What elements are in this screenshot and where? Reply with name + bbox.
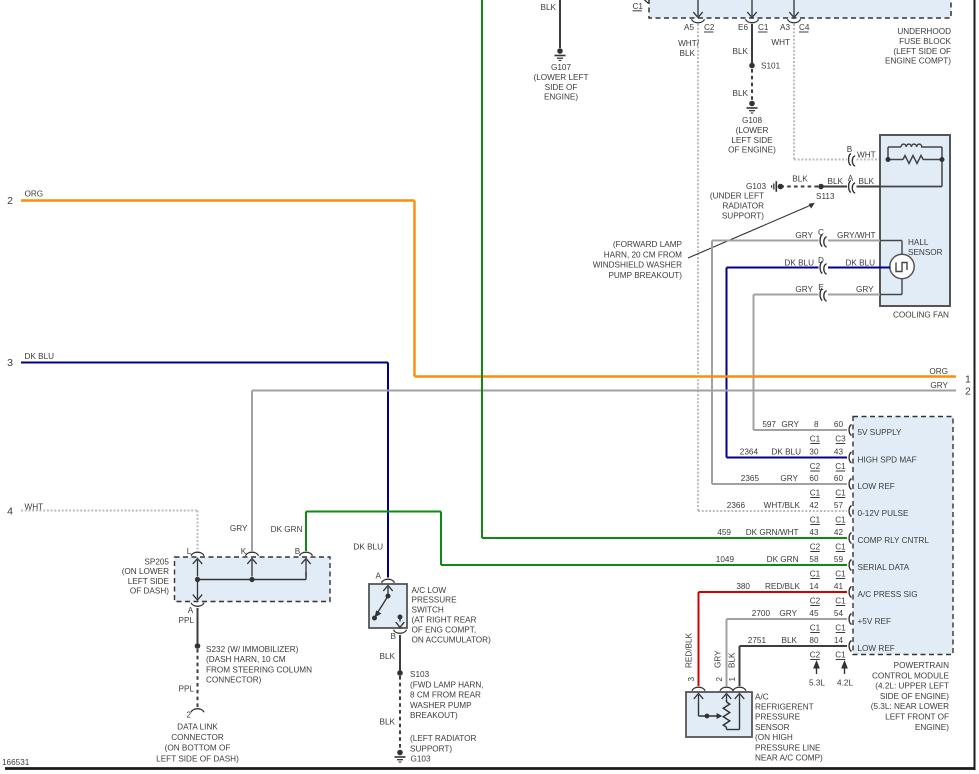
- svg-text:ENGINE): ENGINE): [544, 93, 578, 102]
- svg-text:DK GRN: DK GRN: [271, 525, 303, 534]
- svg-text:PPL: PPL: [179, 616, 195, 625]
- wire PPL from SP205 A to splice S232: [197, 608, 199, 644]
- svg-text:A5: A5: [684, 23, 694, 32]
- svg-text:C2: C2: [810, 543, 821, 552]
- fan motor resistor: [888, 159, 903, 161]
- A/C low pressure switch box: [369, 584, 407, 628]
- svg-text:GRY: GRY: [230, 524, 248, 533]
- wire BLK from connector A to splice S113: [821, 186, 847, 188]
- switch left contact dot: [372, 616, 377, 621]
- svg-text:2365: 2365: [741, 474, 760, 483]
- svg-text:PRESSURE LINE: PRESSURE LINE: [755, 743, 821, 752]
- svg-text:HALL: HALL: [908, 238, 929, 247]
- hall sensor circle: [890, 254, 914, 278]
- wire WHT from connector B into fan: [857, 159, 889, 161]
- svg-text:C2: C2: [810, 597, 821, 606]
- svg-text:A/C LOW: A/C LOW: [412, 586, 447, 595]
- svg-text:14: 14: [809, 582, 819, 591]
- svg-text:CONNECTOR): CONNECTOR): [206, 676, 262, 685]
- svg-text:G107: G107: [551, 63, 571, 72]
- wire BLK from PCM LOW REF to sensor pin 1: [740, 645, 848, 647]
- wire PPL dashed from S232 to data link connector: [197, 649, 199, 708]
- wire GRY from connector E to fan: [828, 294, 880, 296]
- switch internal arrow to B: [399, 617, 401, 622]
- PCM pin row HIGH SPD MAF: circuit 2364 DK BLU: [849, 452, 851, 463]
- svg-text:DK BLU: DK BLU: [784, 259, 814, 268]
- svg-text:LEFT SIDE: LEFT SIDE: [731, 136, 773, 145]
- svg-text:C1: C1: [835, 624, 846, 633]
- PCM pin row COMP RLY CNTRL: circuit 459 DK GRN/WHT: [849, 533, 851, 544]
- svg-text:(ON HIGH: (ON HIGH: [755, 733, 793, 742]
- svg-text:GRY: GRY: [930, 381, 948, 390]
- svg-text:DK BLU: DK BLU: [771, 448, 801, 457]
- page frame right border: [974, 0, 976, 770]
- svg-text:DK GRN: DK GRN: [767, 555, 799, 564]
- svg-text:ENGINE COMPT): ENGINE COMPT): [885, 57, 951, 66]
- svg-text:59: 59: [834, 555, 844, 564]
- svg-text:1: 1: [965, 374, 971, 386]
- svg-text:SENSOR: SENSOR: [755, 723, 790, 732]
- svg-text:L: L: [187, 547, 192, 556]
- svg-text:(LOWER: (LOWER: [736, 126, 769, 135]
- svg-text:LEFT FRONT OF: LEFT FRONT OF: [885, 713, 949, 722]
- PCM pin row A/C PRESS SIG: circuit 380 RED/BLK: [849, 587, 851, 598]
- SP205 connector L: [191, 552, 204, 556]
- svg-text:2: 2: [715, 677, 724, 682]
- svg-text:G103: G103: [746, 182, 766, 191]
- ground G107: [557, 48, 563, 54]
- A/C refrigerant pressure sensor box: [686, 692, 752, 737]
- svg-text:3: 3: [687, 677, 696, 682]
- svg-text:UNDERHOOD: UNDERHOOD: [897, 27, 951, 36]
- svg-text:C1: C1: [810, 570, 821, 579]
- PCM pin row LOW REF: circuit 2365 GRY: [849, 479, 851, 490]
- switch common contact dot: [386, 594, 391, 599]
- svg-text:60: 60: [834, 474, 844, 483]
- svg-text:+5V REF: +5V REF: [858, 617, 891, 626]
- wire RED/BLK from PCM A/C PRESS SIG to sensor pin 3: [699, 591, 848, 593]
- svg-text:DK GRN/WHT: DK GRN/WHT: [746, 528, 799, 537]
- hall sensor wire to pin D: [880, 267, 891, 269]
- svg-text:80: 80: [809, 636, 819, 645]
- svg-text:WHT: WHT: [857, 151, 876, 160]
- svg-text:BLK: BLK: [380, 718, 396, 727]
- svg-text:BLK: BLK: [782, 636, 798, 645]
- svg-text:ORG: ORG: [25, 190, 44, 199]
- svg-text:GRY: GRY: [781, 420, 799, 429]
- svg-text:2751: 2751: [748, 636, 767, 645]
- svg-text:S103: S103: [410, 670, 430, 679]
- hall sensor wire to pin C: [880, 240, 902, 242]
- wire DK BLU down to A/C low pressure switch: [387, 363, 389, 578]
- svg-text:OF DASH): OF DASH): [130, 587, 169, 596]
- svg-text:ORG: ORG: [929, 367, 948, 376]
- svg-text:(AT RIGHT REAR: (AT RIGHT REAR: [412, 616, 477, 625]
- svg-text:459: 459: [717, 528, 731, 537]
- svg-text:PRESSURE: PRESSURE: [412, 596, 458, 605]
- svg-text:C1: C1: [835, 462, 846, 471]
- fuse block pin A5/C2 connector: [692, 19, 705, 23]
- svg-text:A/C: A/C: [755, 692, 769, 701]
- svg-text:GRY: GRY: [795, 285, 813, 294]
- svg-text:30: 30: [809, 448, 819, 457]
- fan motor inductor: [901, 144, 922, 147]
- svg-text:BLK: BLK: [541, 3, 557, 12]
- svg-text:DK BLU: DK BLU: [353, 543, 383, 552]
- svg-text:5V SUPPLY: 5V SUPPLY: [858, 428, 903, 437]
- svg-text:C1: C1: [633, 2, 644, 11]
- svg-text:C1: C1: [758, 23, 769, 32]
- svg-text:C1: C1: [835, 651, 846, 660]
- splice S101: [749, 63, 755, 69]
- junction dot left of motor: [886, 157, 891, 162]
- ground G103 at left radiator support: [397, 750, 403, 756]
- svg-text:WINDSHIELD WASHER: WINDSHIELD WASHER: [593, 261, 682, 270]
- wire WHT to fan connector B: [794, 159, 847, 161]
- svg-text:2: 2: [186, 711, 191, 720]
- svg-text:(DASH HARN, 10 CM: (DASH HARN, 10 CM: [206, 655, 286, 664]
- svg-text:G103: G103: [411, 755, 431, 764]
- switch arm: [377, 596, 388, 614]
- svg-text:0-12V PULSE: 0-12V PULSE: [858, 509, 910, 518]
- svg-text:SIDE OF ENGINE): SIDE OF ENGINE): [880, 692, 949, 701]
- svg-text:HIGH SPD MAF: HIGH SPD MAF: [858, 455, 917, 464]
- svg-text:A3: A3: [780, 23, 790, 32]
- wire DK BLU from fan D down to PCM HIGH SPD MAF: [727, 267, 819, 269]
- svg-text:SUPPORT): SUPPORT): [722, 212, 764, 221]
- svg-text:45: 45: [809, 609, 819, 618]
- splice pack SP205 box: [175, 557, 331, 602]
- svg-text:LEFT SIDE: LEFT SIDE: [128, 577, 170, 586]
- svg-text:A/C PRESS SIG: A/C PRESS SIG: [858, 590, 918, 599]
- svg-text:OF ENG COMPT,: OF ENG COMPT,: [412, 625, 477, 634]
- svg-text:(5.3L: NEAR LOWER: (5.3L: NEAR LOWER: [871, 702, 949, 711]
- splice S232: [195, 643, 201, 649]
- hall sensor pulse glyph: [896, 263, 907, 272]
- svg-text:8 CM FROM REAR: 8 CM FROM REAR: [410, 691, 481, 700]
- fuse block pin E6/C1 connector: [746, 19, 759, 23]
- wire GRY from PCM +5V REF to sensor pin 2: [727, 618, 848, 620]
- wire GRY/WHT from connector C to fan: [828, 240, 880, 242]
- wire WHT from fuse block C4 down: [793, 24, 795, 160]
- fuse block internal wire arrow into pin E6: [751, 0, 753, 16]
- svg-text:2700: 2700: [752, 609, 771, 618]
- svg-text:2364: 2364: [740, 448, 759, 457]
- SP205 connector A: [191, 603, 204, 607]
- svg-text:(UNDER LEFT: (UNDER LEFT: [710, 192, 764, 201]
- fuse block C1 pointer tick: [644, 0, 649, 3]
- wire BLK dashed from S103 to G103: [399, 676, 401, 749]
- wire WHT/BLK from fuse block A5 down: [697, 24, 699, 511]
- svg-text:REFRIGERENT: REFRIGERENT: [755, 703, 814, 712]
- svg-text:GRY/WHT: GRY/WHT: [837, 231, 876, 240]
- PCM pin row SERIAL DATA: circuit 1049 DK GRN: [849, 560, 851, 571]
- svg-text:CONNECTOR: CONNECTOR: [171, 733, 224, 742]
- svg-text:2366: 2366: [727, 501, 746, 510]
- svg-text:COOLING FAN: COOLING FAN: [893, 311, 949, 320]
- svg-text:CONTROL MODULE: CONTROL MODULE: [872, 671, 950, 680]
- svg-text:GRY: GRY: [714, 650, 723, 668]
- svg-text:C1: C1: [835, 597, 846, 606]
- wire GRY from fan C down to PCM LOW REF: [712, 240, 819, 242]
- wire GRY from splice pack K to right edge 2: [252, 390, 956, 392]
- svg-text:(ON BOTTOM OF: (ON BOTTOM OF: [165, 744, 231, 753]
- svg-text:(LOWER LEFT: (LOWER LEFT: [533, 73, 588, 82]
- svg-text:(ON LOWER: (ON LOWER: [122, 567, 169, 576]
- svg-text:GRY: GRY: [795, 231, 813, 240]
- svg-text:DK BLU: DK BLU: [25, 352, 55, 361]
- svg-text:1049: 1049: [716, 555, 735, 564]
- svg-text:BLK: BLK: [728, 652, 737, 668]
- svg-text:SP205: SP205: [144, 558, 169, 567]
- svg-text:POWERTRAIN: POWERTRAIN: [894, 661, 949, 670]
- svg-text:14: 14: [834, 636, 844, 645]
- svg-text:43: 43: [809, 528, 819, 537]
- svg-text:54: 54: [834, 609, 844, 618]
- svg-text:4: 4: [7, 506, 13, 518]
- svg-text:FROM STEERING COLUMN: FROM STEERING COLUMN: [206, 665, 312, 674]
- junction dot right of motor: [940, 157, 945, 162]
- svg-text:B: B: [295, 547, 301, 556]
- powertrain control module box: [853, 417, 953, 655]
- splice S113: [818, 184, 824, 190]
- switch internal arrow from A: [387, 587, 389, 598]
- wire WHT/BLK horizontal to PCM pin 42: [698, 510, 847, 512]
- svg-text:HARN, 20 CM FROM: HARN, 20 CM FROM: [604, 250, 682, 259]
- SP205 internal bus: [198, 579, 307, 581]
- PCM pin row 0-12V PULSE: circuit 2366 WHT/BLK: [849, 506, 851, 517]
- svg-text:C1: C1: [835, 543, 846, 552]
- wire BLK dashed from S113 to G103: [783, 186, 818, 188]
- PCM connector C2 arrow (5.3L): [816, 666, 818, 674]
- svg-text:PRESSURE: PRESSURE: [755, 713, 801, 722]
- wire BLK from switch B to splice S103: [399, 635, 401, 671]
- sensor bottom link: [727, 729, 740, 731]
- fuse block internal wire arrow into pin A3: [793, 0, 795, 16]
- svg-text:A: A: [376, 572, 382, 581]
- wire BLK from fuse block E6 to splice S101: [751, 24, 753, 63]
- ground G103 at radiator support (sideways): [778, 184, 784, 190]
- svg-text:S232 (W/ IMMOBILIZER): S232 (W/ IMMOBILIZER): [206, 645, 299, 654]
- svg-text:GRY: GRY: [779, 609, 797, 618]
- svg-text:42: 42: [834, 528, 844, 537]
- svg-text:43: 43: [834, 448, 844, 457]
- sensor pin 3 connector: [692, 687, 705, 691]
- svg-text:BLK: BLK: [828, 177, 844, 186]
- svg-text:C3: C3: [835, 435, 846, 444]
- svg-text:41: 41: [834, 582, 844, 591]
- sensor internal arrow pin 3: [698, 695, 700, 704]
- data link connector pin 2: [191, 709, 204, 713]
- cooling fan box: [880, 135, 950, 306]
- SP205 connector K: [246, 552, 259, 556]
- svg-text:C2: C2: [704, 23, 715, 32]
- svg-text:BLK: BLK: [733, 89, 749, 98]
- svg-text:58: 58: [809, 555, 819, 564]
- PCM connector C1 arrow (4.2L): [844, 666, 846, 674]
- hall sensor wire to pin E: [880, 294, 902, 296]
- splice S103: [397, 670, 403, 676]
- wire BLK from fan pin A to inline connector A: [857, 186, 881, 188]
- svg-text:PUMP BREAKOUT): PUMP BREAKOUT): [608, 271, 682, 280]
- svg-text:C1: C1: [835, 489, 846, 498]
- wire WHT down to splice pack L: [197, 511, 199, 552]
- svg-text:SENSOR: SENSOR: [908, 248, 943, 257]
- svg-text:57: 57: [834, 501, 844, 510]
- PCM pin row 5V SUPPLY: circuit 597 GRY: [849, 425, 851, 436]
- svg-text:C1: C1: [810, 624, 821, 633]
- svg-text:BLK: BLK: [859, 177, 875, 186]
- page frame bottom border: [5, 767, 976, 770]
- svg-text:A: A: [848, 174, 854, 183]
- sensor resistor element: [723, 702, 729, 727]
- svg-text:B: B: [847, 145, 853, 154]
- svg-text:597: 597: [762, 420, 776, 429]
- A/C low pressure switch connector A: [382, 579, 395, 583]
- A/C low pressure switch connector B: [394, 630, 407, 634]
- fan motor winding loop: [887, 147, 889, 160]
- svg-text:LOW REF: LOW REF: [858, 482, 895, 491]
- wire BLK to G107: [559, 0, 561, 48]
- svg-text:(LEFT SIDE OF: (LEFT SIDE OF: [893, 47, 951, 56]
- svg-text:FUSE BLOCK: FUSE BLOCK: [899, 37, 951, 46]
- svg-text:A: A: [188, 606, 194, 615]
- svg-text:SWITCH: SWITCH: [412, 606, 444, 615]
- svg-text:1: 1: [728, 677, 737, 682]
- svg-text:C1: C1: [835, 570, 846, 579]
- svg-text:166531: 166531: [2, 758, 30, 767]
- svg-text:C1: C1: [810, 489, 821, 498]
- svg-text:2: 2: [7, 195, 13, 207]
- wire BLK dashed from S101 to G108: [751, 69, 753, 100]
- switch right contact dot: [398, 615, 403, 620]
- sensor wiper arm: [699, 715, 718, 717]
- pointer arrow from note to S113: [688, 205, 811, 258]
- svg-text:SERIAL DATA: SERIAL DATA: [858, 563, 910, 572]
- wire DK GRN from splice pack B to PCM SERIAL DATA: [305, 512, 307, 552]
- SP205 internal arrow from L: [197, 560, 199, 577]
- ground G108: [749, 101, 755, 107]
- SP205 junction dot L: [195, 577, 200, 582]
- svg-text:WASHER PUMP: WASHER PUMP: [410, 701, 472, 710]
- svg-text:E6: E6: [738, 23, 748, 32]
- svg-text:COMP RLY CNTRL: COMP RLY CNTRL: [858, 536, 930, 545]
- SP205 internal arrow from B: [305, 560, 307, 577]
- svg-text:C2: C2: [810, 462, 821, 471]
- svg-text:LOW REF: LOW REF: [858, 644, 895, 653]
- svg-text:PPL: PPL: [179, 685, 195, 694]
- svg-text:4.2L: 4.2L: [837, 679, 853, 688]
- wire ORG to right edge 1: [415, 375, 957, 377]
- svg-text:WHT/: WHT/: [678, 39, 700, 48]
- svg-text:WHT: WHT: [771, 38, 790, 47]
- svg-text:ENGINE): ENGINE): [915, 723, 949, 732]
- svg-text:BLK: BLK: [792, 175, 808, 184]
- PCM pin row LOW REF: circuit 2751 BLK: [849, 641, 851, 652]
- svg-text:(LEFT RADIATOR: (LEFT RADIATOR: [410, 734, 477, 743]
- svg-text:60: 60: [834, 420, 844, 429]
- svg-text:WHT/BLK: WHT/BLK: [764, 501, 801, 510]
- svg-text:3: 3: [7, 357, 13, 369]
- wire DK GRN/WHT from top to PCM COMP RLY CNTRL: [481, 0, 483, 538]
- svg-text:8: 8: [814, 420, 819, 429]
- svg-text:BLK: BLK: [680, 49, 696, 58]
- svg-text:C4: C4: [799, 23, 810, 32]
- svg-text:2: 2: [965, 386, 971, 398]
- wire DK BLU from connector D to fan: [828, 267, 880, 269]
- fuse block internal wire arrow into pin A5: [697, 0, 699, 16]
- svg-text:C1: C1: [810, 516, 821, 525]
- svg-text:DK BLU: DK BLU: [846, 259, 876, 268]
- svg-text:C2: C2: [810, 651, 821, 660]
- svg-text:60: 60: [809, 474, 819, 483]
- svg-text:5.3L: 5.3L: [809, 679, 825, 688]
- svg-text:BLK: BLK: [733, 47, 749, 56]
- svg-text:GRY: GRY: [780, 474, 798, 483]
- svg-text:42: 42: [809, 501, 819, 510]
- PCM pin row +5V REF: circuit 2700 GRY: [849, 614, 851, 625]
- svg-text:RADIATOR: RADIATOR: [722, 202, 764, 211]
- fuse block pin A3/C4 connector: [788, 19, 801, 23]
- SP205 junction dot K: [249, 577, 254, 582]
- svg-text:K: K: [241, 547, 247, 556]
- svg-text:(FORWARD LAMP: (FORWARD LAMP: [613, 240, 683, 249]
- svg-text:SIDE OF: SIDE OF: [545, 83, 578, 92]
- svg-text:C1: C1: [810, 435, 821, 444]
- svg-text:LEFT SIDE OF DASH): LEFT SIDE OF DASH): [156, 754, 239, 763]
- sensor internal arrow pin 1: [739, 695, 741, 704]
- svg-text:G108: G108: [742, 116, 762, 125]
- svg-text:BLK: BLK: [380, 652, 396, 661]
- SP205 connector B: [300, 552, 313, 556]
- SP205 internal arrow to A: [197, 582, 199, 599]
- svg-text:BREAKOUT): BREAKOUT): [410, 711, 458, 720]
- svg-text:S113: S113: [816, 192, 835, 201]
- svg-text:ON ACCUMULATOR): ON ACCUMULATOR): [412, 635, 492, 644]
- SP205 internal arrow from K: [251, 560, 253, 577]
- sensor pin 2 connector: [720, 687, 733, 691]
- svg-text:(4.2L: UPPER LEFT: (4.2L: UPPER LEFT: [875, 682, 949, 691]
- wire GRY from fan E down to PCM 5V SUPPLY: [754, 294, 819, 296]
- svg-text:S101: S101: [761, 62, 781, 71]
- fan motor return wire to pin A: [880, 186, 942, 188]
- sensor pin 1 connector: [733, 687, 746, 691]
- svg-text:OF ENGINE): OF ENGINE): [728, 146, 776, 155]
- svg-text:(FWD LAMP HARN,: (FWD LAMP HARN,: [410, 680, 484, 689]
- svg-text:380: 380: [736, 582, 750, 591]
- underhood fuse block box (cut off at top): [649, 0, 951, 18]
- svg-text:DATA LINK: DATA LINK: [177, 723, 218, 732]
- svg-text:RED/BLK: RED/BLK: [765, 582, 801, 591]
- svg-text:GRY: GRY: [856, 285, 874, 294]
- svg-text:SUPPORT): SUPPORT): [410, 745, 452, 754]
- svg-text:RED/BLK: RED/BLK: [685, 632, 694, 668]
- svg-text:NEAR A/C COMP): NEAR A/C COMP): [755, 754, 823, 763]
- svg-text:B: B: [391, 632, 397, 641]
- svg-text:C1: C1: [835, 516, 846, 525]
- sensor internal arrow pin 2: [726, 695, 728, 702]
